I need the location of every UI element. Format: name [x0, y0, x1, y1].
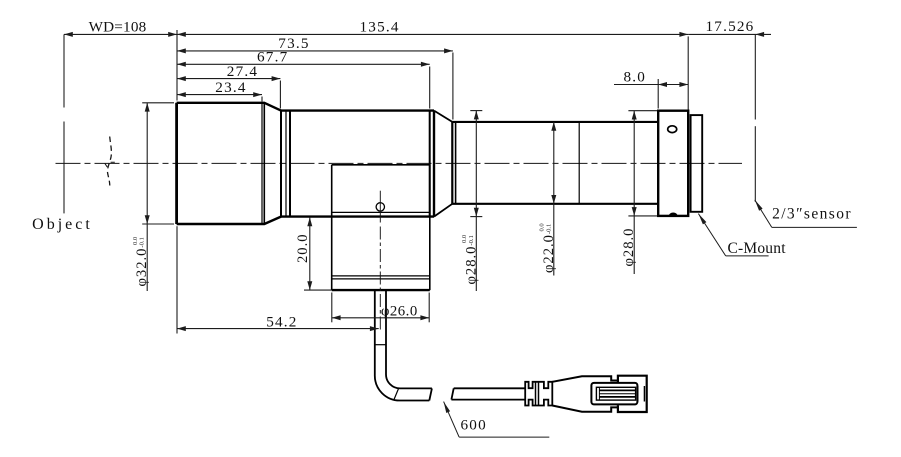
groove ring line B: [285, 111, 287, 217]
extension line x=429.7: [429, 67, 431, 109]
extension line x=453: [452, 53, 454, 120]
c-mount ring body: [658, 111, 688, 216]
phi28 left extension ticks: [470, 111, 482, 217]
dimension WD=108: [64, 18, 177, 37]
dimension phi22.0: [539, 122, 557, 276]
cable inner edge: [386, 290, 432, 388]
c-mount ring set screw (bottom): [669, 213, 678, 216]
set screw hole on block: [376, 203, 384, 211]
strain relief middle band: [536, 382, 539, 406]
mount block outline: [332, 165, 430, 290]
mount block bottom edge: [332, 289, 430, 291]
svg-text:23.4: 23.4: [215, 79, 246, 96]
connector rear shell: [618, 376, 647, 412]
svg-text:54.2: 54.2: [266, 313, 297, 330]
extension line front (x=177): [176, 30, 178, 334]
front barrel (large cylinder): [177, 103, 281, 224]
phi28 right extension ticks: [628, 111, 657, 216]
block screw centerline: [379, 191, 381, 332]
dimension 67.7: [177, 49, 430, 67]
rear tube left edge line B: [455, 122, 457, 204]
wire optical axis centerline: [56, 162, 743, 164]
dimension 20.0: [295, 217, 312, 290]
node object plane line: [63, 34, 65, 213]
connector contact bar B: [599, 396, 635, 398]
phi32 extension ticks: [142, 103, 174, 224]
dimension phi26.0: [332, 304, 429, 321]
svg-text:600: 600: [461, 417, 487, 434]
connector contact bar A: [599, 389, 635, 391]
connector contact line C: [599, 393, 635, 395]
mount block flange line A: [332, 275, 430, 277]
svg-text:Object: Object: [32, 216, 93, 233]
20.0 bottom extension tick: [304, 289, 332, 291]
cable break cut: [429, 388, 432, 400]
leader 2/3 sensor: [755, 200, 857, 228]
front barrel groove line: [261, 103, 263, 224]
cable outer edge: [375, 290, 430, 400]
groove ring line A: [280, 111, 282, 217]
c-mount ring set screw (top): [668, 126, 677, 133]
front barrel left edge: [175, 103, 178, 224]
break symbol on axis: [105, 137, 115, 186]
svg-text:135.4: 135.4: [360, 18, 400, 35]
svg-text:8.0: 8.0: [624, 69, 647, 86]
dimension phi32.0: [132, 103, 150, 291]
svg-text:27.4: 27.4: [227, 63, 258, 80]
connector slot: [596, 387, 635, 400]
main barrel right edge line A: [429, 111, 431, 217]
strain relief block: [525, 382, 552, 406]
dimension phi28.0 right: [621, 111, 637, 274]
main barrel right edge line B: [433, 111, 435, 217]
c-mount flange: [691, 115, 703, 212]
cable piece 2: [451, 388, 525, 399]
dimension 27.4: [177, 63, 280, 81]
mount block inner line: [332, 211, 430, 213]
taper to rear tube: [434, 111, 452, 217]
svg-text:17.526: 17.526: [706, 18, 755, 35]
connector inner frame: [591, 383, 637, 405]
cable joint tick: [375, 344, 386, 346]
svg-text:2/3″sensor: 2/3″sensor: [772, 205, 852, 222]
dimension 54.2: [177, 313, 379, 331]
mount block flange line B: [332, 278, 430, 280]
dimension 135.4: [177, 18, 688, 37]
main barrel (phi 28 section): [281, 111, 434, 217]
connector inner vertical B: [643, 386, 645, 402]
connector slot left line: [598, 387, 600, 400]
extension line x=658.2: [657, 79, 659, 109]
cable bend-end joint: [394, 388, 399, 400]
leader 600: [444, 402, 550, 438]
svg-text:20.0: 20.0: [295, 233, 311, 263]
extension line x=262: [261, 97, 263, 102]
connector body: [552, 376, 618, 411]
phi26 extension lines: [332, 293, 429, 323]
dimension 8.0: [614, 69, 688, 87]
leader C-Mount: [698, 214, 786, 257]
sensor plane line: [754, 34, 756, 201]
rear tube left edge line A: [451, 122, 453, 204]
svg-text:WD=108: WD=108: [89, 18, 147, 35]
rear tube mid joint line: [578, 122, 580, 204]
connector inner vertical A: [637, 386, 639, 402]
dimension 17.526: [688, 18, 771, 37]
front barrel right edge line: [263, 103, 265, 224]
rear tube (phi 22 section): [452, 122, 658, 204]
extension line x=688.2: [687, 36, 689, 109]
svg-text:67.7: 67.7: [257, 49, 288, 66]
dimension phi28.0 left: [461, 111, 479, 291]
svg-text:φ26.0: φ26.0: [381, 304, 418, 320]
svg-text:C-Mount: C-Mount: [727, 240, 786, 257]
groove ring line C: [289, 111, 291, 217]
svg-text:φ28.0: φ28.0: [621, 228, 637, 267]
extension line x=280.4: [279, 81, 281, 109]
dimension 73.5: [177, 35, 453, 53]
dimension 23.4: [177, 79, 262, 97]
